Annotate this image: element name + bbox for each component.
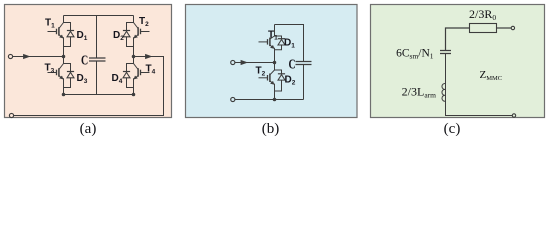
wire: diode D1 lower lead and jog back to column (64, 37, 71, 47)
diode D4 cathode bar (123, 71, 130, 73)
node: left leg bottom junction (62, 93, 66, 97)
arrow on output lead (145, 54, 152, 59)
transistor T1 body bar (58, 27, 60, 36)
wire: diode D4 lower lead and jog back to column (127, 78, 134, 88)
wire: diode D3 lower lead and jog back to column (64, 78, 71, 88)
transistor T4 emitter arrowhead (134, 76, 138, 80)
node: right leg midpoint junction (132, 55, 136, 59)
return terminal (left, bottom) (9, 113, 13, 117)
wire: T1 cell column down to next node (274, 48, 276, 63)
transistor T1 gate bar (267, 39, 269, 45)
diode D2 triangle (anode below, pointing up) (278, 75, 285, 81)
transistor T2 collector diagonal (134, 23, 139, 29)
capacitor C branch lower wire (96, 61, 98, 95)
node: leg bottom junction (273, 98, 277, 102)
transistor T3 gate lead (48, 72, 57, 74)
transistor T1 collector diagonal (270, 36, 275, 39)
transistor T1 body bar (269, 38, 271, 47)
wire: bottom rail (235, 99, 304, 101)
capacitor C plates (89, 58, 106, 61)
wire: diode D1 lower lead and jog back to column (275, 45, 282, 50)
transistor T4 emitter diagonal (135, 76, 138, 79)
wire: T3 cell top stub and diode-branch jog (64, 57, 71, 72)
svg-text:C: C (289, 57, 296, 72)
input terminal (left, mid) (8, 54, 12, 58)
wire: capacitor branch lower wire (303, 65, 305, 100)
transistor T3 emitter arrowhead (59, 76, 63, 80)
svg-text:(b): (b) (262, 121, 280, 137)
arrow on input lead (241, 60, 248, 65)
transistor T1 emitter diagonal (270, 45, 273, 48)
diode D1 cathode bar (67, 30, 74, 32)
wire: T1 cell column down to next node (63, 37, 65, 56)
diode D2 cathode bar (123, 30, 130, 32)
svg-text:(a): (a) (80, 121, 97, 137)
transistor T2 emitter diagonal (270, 81, 273, 84)
wire: top connection from leg to capacitor branch (275, 25, 304, 62)
wire: output lead from right leg midpoint, down and back along bottom (14, 57, 164, 116)
capacitor 6Csm/N1 plates (440, 51, 451, 54)
wire: T2 cell top stub and diode-branch jog (275, 63, 282, 74)
wire: T4 cell column down to next node (133, 78, 135, 94)
transistor T3 collector diagonal (59, 64, 64, 70)
wire: top lead left of resistor (446, 28, 470, 51)
transistor T4 collector diagonal (134, 64, 139, 70)
wire: branch from capacitor through inductor to bottom terminal (446, 54, 513, 116)
capacitor C plates (296, 62, 312, 65)
transistor T3 gate bar (56, 70, 58, 76)
capacitor C branch upper wire (96, 16, 98, 59)
wire: T1 cell top stub and diode-branch jog (64, 16, 71, 31)
transistor T1 collector diagonal (59, 23, 64, 29)
node: right leg bottom junction (132, 93, 136, 97)
node: left leg midpoint junction (62, 55, 66, 59)
wire: T3 cell column down to next node (63, 78, 65, 94)
transistor T2 gate lead (141, 31, 150, 33)
panel (c) background box (371, 5, 545, 118)
transistor T2 collector diagonal (270, 70, 275, 75)
resistor 2/3R0 body (470, 24, 497, 33)
wire: T4 cell top stub and diode-branch jog (127, 57, 134, 72)
wire: DC top rail (64, 15, 134, 17)
wire: input lead to leg midpoint (235, 62, 275, 64)
transistor T1 emitter arrowhead (59, 35, 63, 39)
diode D1 triangle (anode below, pointing up) (67, 31, 74, 37)
diode D1 cathode bar (278, 38, 285, 40)
wire: diode D2 lower lead and jog back to column (275, 80, 282, 91)
panel (a) background box (5, 5, 172, 118)
transistor T4 gate lead (141, 72, 150, 74)
terminal (top right) (511, 26, 514, 29)
transistor T4 body bar (137, 68, 139, 77)
diode D3 cathode bar (67, 71, 74, 73)
transistor T2 emitter arrowhead (134, 35, 138, 39)
transistor T1 gate bar (56, 29, 58, 35)
transistor T1 gate lead (259, 41, 268, 43)
diode D4 triangle (anode below, pointing up) (123, 72, 130, 78)
wire: T1 cell top stub and diode-branch jog (275, 25, 282, 39)
wire: T2 cell column down to next node (133, 37, 135, 56)
wire: T2 cell top stub and diode-branch jog (127, 16, 134, 31)
diode D3 triangle (anode below, pointing up) (67, 72, 74, 78)
transistor T3 body bar (58, 68, 60, 77)
transistor T2 body bar (269, 74, 271, 83)
svg-text:2/3R0: 2/3R0 (469, 7, 496, 22)
diode D2 triangle (anode below, pointing up) (123, 31, 130, 37)
transistor T2 gate lead (259, 77, 268, 79)
return terminal (left, bottom) (231, 97, 235, 101)
transistor T2 gate bar (267, 75, 269, 81)
node: leg midpoint junction (273, 61, 277, 65)
transistor T2 emitter arrowhead (270, 81, 274, 85)
diode D2 cathode bar (278, 73, 285, 75)
wire: diode D2 lower lead and jog back to column (127, 37, 134, 47)
transistor T1 emitter arrowhead (270, 45, 274, 49)
arrow on input lead (23, 54, 30, 59)
transistor T3 emitter diagonal (59, 76, 62, 79)
transistor T2 gate bar (140, 29, 142, 35)
diode D1 triangle (anode below, pointing up) (278, 40, 285, 46)
input terminal (left, mid) (231, 60, 235, 64)
svg-text:(c): (c) (444, 121, 461, 137)
panel (b) background box (186, 5, 358, 118)
transistor T2 emitter diagonal (135, 35, 138, 38)
transistor T4 gate bar (140, 70, 142, 76)
svg-text:C: C (81, 53, 88, 68)
terminal (bottom right) (512, 114, 515, 117)
wire: DC bottom bus (64, 94, 134, 96)
wire: input lead to left leg midpoint (13, 56, 64, 58)
wire: top lead right of resistor (497, 27, 512, 29)
inductor 2/3Larm coil (442, 83, 446, 101)
transistor T2 body bar (137, 27, 139, 36)
wire: T2 cell column down to next node (274, 84, 276, 100)
transistor T1 gate lead (48, 31, 57, 33)
transistor T1 emitter diagonal (59, 35, 62, 38)
